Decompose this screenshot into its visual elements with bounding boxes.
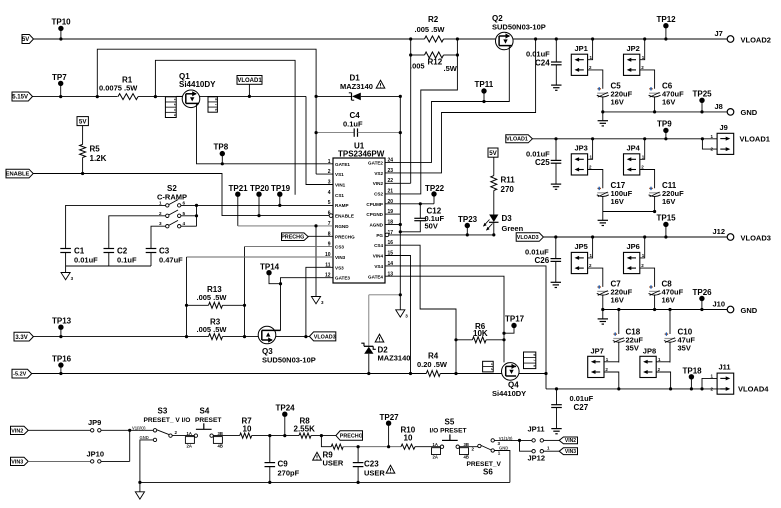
connector J9 VLOAD1 xyxy=(717,133,734,154)
junction VIN4 on rail xyxy=(409,372,412,375)
svg-text:5: 5 xyxy=(183,211,186,216)
svg-text:VLOAD4: VLOAD4 xyxy=(738,385,769,394)
net tag -5.2V input xyxy=(12,369,32,378)
jumper JP10 xyxy=(91,460,94,463)
junction JP8 pin2 xyxy=(669,387,672,390)
capacitor C12 0.1uF 50V xyxy=(419,204,421,219)
svg-text:2: 2 xyxy=(589,65,592,70)
svg-text:2: 2 xyxy=(159,211,162,216)
svg-text:TP12: TP12 xyxy=(657,15,677,24)
junction R13 left xyxy=(185,304,188,307)
svg-text:.5W: .5W xyxy=(444,64,458,73)
svg-text:CS2: CS2 xyxy=(374,191,383,196)
svg-text:3: 3 xyxy=(321,300,324,305)
svg-text:.005 .5W: .005 .5W xyxy=(415,25,446,34)
junction C9 bottom xyxy=(268,481,271,484)
wire R13 legs xyxy=(186,305,188,336)
svg-text:MAZ3140: MAZ3140 xyxy=(340,82,373,91)
svg-text:16V: 16V xyxy=(662,296,675,305)
wire JP3 pin2 to C17 xyxy=(588,170,603,189)
svg-text:.005 .5W: .005 .5W xyxy=(197,293,228,302)
transistor Q4 Si4410DY xyxy=(502,363,520,381)
resistor R9 USER xyxy=(331,444,343,449)
svg-text:3: 3 xyxy=(328,180,331,186)
capacitor C23 USER xyxy=(357,447,359,463)
svg-text:.005: .005 xyxy=(410,62,425,71)
svg-text:1: 1 xyxy=(328,159,331,165)
svg-text:JP4: JP4 xyxy=(627,144,641,153)
jumper JP1 xyxy=(571,54,587,75)
svg-text:S4: S4 xyxy=(200,407,210,416)
svg-text:SUD50N03-10P: SUD50N03-10P xyxy=(262,356,316,365)
wire R1 to Q1 xyxy=(138,96,182,98)
jumper JP3 xyxy=(571,154,587,175)
svg-text:6: 6 xyxy=(533,365,537,367)
svg-text:6: 6 xyxy=(214,109,218,111)
svg-text:1A: 1A xyxy=(433,442,438,447)
svg-text:VLOAD3: VLOAD3 xyxy=(314,334,336,340)
ground C26 xyxy=(551,281,561,283)
junction C11 bottom xyxy=(653,210,656,213)
junction AGND pin18 xyxy=(399,223,402,226)
junction VS3 on VLOAD3 xyxy=(304,335,307,338)
connector J12 VLOAD3 xyxy=(727,234,734,241)
svg-text:2: 2 xyxy=(589,263,592,268)
svg-text:VIN2: VIN2 xyxy=(373,181,384,186)
wire ENABLE net xyxy=(33,174,329,216)
svg-text:R2: R2 xyxy=(428,15,439,24)
jumper JP8 xyxy=(640,356,656,377)
wire JP9 to S3 xyxy=(101,429,153,431)
svg-text:TP11: TP11 xyxy=(475,80,494,89)
wire VIN2 from R2 left xyxy=(410,55,412,183)
wire R12 left leg xyxy=(410,39,412,55)
wire VIN1 xyxy=(306,96,333,184)
jumper JP9 xyxy=(91,429,94,432)
wire S3 common to S4 xyxy=(172,435,194,437)
svg-text:VS3: VS3 xyxy=(335,265,344,270)
connector J7 VLOAD2 xyxy=(727,36,734,43)
svg-text:ENABLE: ENABLE xyxy=(6,172,30,178)
transistor Q1 Si4410DY xyxy=(182,90,200,108)
svg-text:VIN2: VIN2 xyxy=(11,428,23,434)
wire VLOAD3 out xyxy=(543,236,727,238)
svg-text:0.1uF: 0.1uF xyxy=(117,256,137,265)
wire JP1 pin1 xyxy=(588,39,593,60)
svg-text:0.20 .5W: 0.20 .5W xyxy=(417,360,448,369)
svg-text:1: 1 xyxy=(590,55,593,60)
svg-text:GATE2: GATE2 xyxy=(368,160,383,165)
junction TP27 xyxy=(387,445,390,448)
svg-text:TP10: TP10 xyxy=(52,18,72,27)
svg-text:CPUMP: CPUMP xyxy=(366,202,383,207)
svg-text:C24: C24 xyxy=(535,59,550,68)
testpoint TP22 xyxy=(431,191,436,196)
capacitor C27 0.01uF xyxy=(556,389,558,405)
svg-text:USER: USER xyxy=(323,458,344,467)
net tag ENABLE input xyxy=(6,169,33,178)
junction R2 right xyxy=(456,37,459,40)
net tag PRECHG low xyxy=(336,431,363,441)
junction J11 branch xyxy=(700,387,703,390)
junction S2 common xyxy=(195,204,198,207)
testpoint TP12 xyxy=(663,23,668,28)
ground C5 xyxy=(598,120,608,122)
svg-text:TP21: TP21 xyxy=(229,184,249,193)
testpoint TP20 xyxy=(256,192,261,197)
testpoint TP8 xyxy=(220,151,225,156)
wire GND row 1 xyxy=(603,111,727,113)
junction TP16 xyxy=(59,372,62,375)
wire JP2 pin1 xyxy=(640,39,645,60)
svg-text:VLOAD1: VLOAD1 xyxy=(506,137,528,143)
wire S6 GND throw xyxy=(494,451,510,483)
wire VS1 sense loop xyxy=(97,49,316,96)
wire JP12 branch xyxy=(520,440,533,451)
wire S4 to R7 xyxy=(213,435,239,437)
testpoint TP26 xyxy=(699,296,704,301)
svg-text:10: 10 xyxy=(404,433,413,442)
wire S6 top throw to JP11 xyxy=(494,439,532,441)
svg-text:3: 3 xyxy=(405,313,408,318)
svg-text:VS2: VS2 xyxy=(374,171,383,176)
net tag VIN2 input xyxy=(11,426,29,434)
net tag VIN3 right xyxy=(559,448,577,455)
testpoint TP25 xyxy=(699,98,704,103)
svg-text:0.01uF: 0.01uF xyxy=(74,256,98,265)
capacitor C1 0.01uF xyxy=(60,248,71,250)
jumper JP7 xyxy=(588,356,604,377)
wire Q3 out xyxy=(276,336,310,338)
ground ramp caps xyxy=(61,273,70,280)
resistor R7 10 xyxy=(240,433,252,438)
Q4 right pad pins xyxy=(524,352,536,369)
ground C24 xyxy=(551,84,561,86)
svg-text:5V: 5V xyxy=(79,118,87,125)
svg-text:1.2K: 1.2K xyxy=(90,154,107,163)
testpoint TP15 xyxy=(663,222,668,227)
junction TP25 xyxy=(700,110,703,113)
ground C7 xyxy=(598,318,608,320)
wire JP11 to VIN2 tag xyxy=(544,439,560,441)
wire 5V rail R2 to Q2 xyxy=(457,38,495,40)
resistor R2 xyxy=(411,38,425,40)
wire VLOAD4 xyxy=(546,388,727,390)
svg-text:6: 6 xyxy=(183,200,186,205)
svg-text:TP19: TP19 xyxy=(271,184,291,193)
svg-text:PRECHG: PRECHG xyxy=(340,433,363,439)
wire VS2 sense xyxy=(385,39,536,173)
junction TP18 xyxy=(690,387,693,390)
wire VIN2 to JP9 xyxy=(28,429,91,431)
testpoint TP23 xyxy=(465,223,470,228)
svg-text:21: 21 xyxy=(388,188,394,194)
junction JP6 pin1 xyxy=(643,235,646,238)
junction JP1 pin1 xyxy=(591,37,594,40)
wire C2 to S2 pole 2 xyxy=(109,216,166,249)
svg-text:JP12: JP12 xyxy=(528,453,546,462)
svg-text:4B: 4B xyxy=(218,444,223,449)
junction J9 branch xyxy=(701,137,704,140)
op-amp U1 TPS2346PW hot-swap controller xyxy=(333,158,385,283)
junction R6 right xyxy=(502,338,505,341)
diode D2 MAZ3140 xyxy=(368,295,370,347)
svg-text:JP9: JP9 xyxy=(88,418,101,427)
svg-text:TP14: TP14 xyxy=(260,263,280,272)
junction JP3 pin1 xyxy=(591,137,594,140)
transistor Q2 SUD50N03-10P xyxy=(496,32,514,50)
testpoint TP27 xyxy=(386,421,391,426)
svg-text:35V: 35V xyxy=(678,344,691,353)
junction JP7 pin2 xyxy=(617,387,620,390)
testpoint TP11 xyxy=(481,88,486,93)
connector J11 VLOAD4 xyxy=(717,373,734,394)
svg-text:3: 3 xyxy=(173,109,177,111)
junction D1 left xyxy=(315,95,318,98)
junction R6 left xyxy=(454,338,457,341)
svg-text:VIN2: VIN2 xyxy=(565,438,576,444)
testpoint TP10 xyxy=(58,26,63,31)
wire JP8 pin1 xyxy=(656,361,670,363)
junction CS4 on rail xyxy=(454,372,457,375)
svg-text:RGND: RGND xyxy=(335,224,349,229)
resistor R6 10K xyxy=(456,339,472,341)
svg-text:J10: J10 xyxy=(713,300,726,309)
svg-text:5.15V: 5.15V xyxy=(12,95,28,101)
svg-text:VLOAD2: VLOAD2 xyxy=(741,36,771,45)
wire GATE3 xyxy=(281,278,334,331)
wire R7 to R8 xyxy=(252,435,299,437)
junction D2 top on AGND xyxy=(399,293,402,296)
svg-text:CPGND: CPGND xyxy=(366,212,383,217)
junction C27 xyxy=(555,387,558,390)
junction C12 bottom on AGND xyxy=(399,230,402,233)
svg-text:VLOAD1: VLOAD1 xyxy=(740,135,770,144)
connector J10 GND xyxy=(727,306,734,313)
capacitor C2 0.1uF xyxy=(104,248,115,250)
svg-text:0.47uF: 0.47uF xyxy=(159,256,183,265)
svg-text:JP10: JP10 xyxy=(87,450,105,459)
net tag VLOAD1 output xyxy=(506,135,533,143)
svg-text:VIN1: VIN1 xyxy=(335,183,346,188)
svg-text:VLOAD1: VLOAD1 xyxy=(237,78,262,84)
capacitor C6 470uF 16V xyxy=(649,92,660,94)
junction TP8 on GATE1 wire xyxy=(221,162,224,165)
svg-text:7: 7 xyxy=(214,104,218,106)
capacitor C9 270pF xyxy=(269,436,271,463)
junction C10 top xyxy=(668,308,671,311)
wire R12 right leg xyxy=(456,39,458,55)
junction VS4 at Q4 out xyxy=(544,372,547,375)
junction C8 bottom xyxy=(653,308,656,311)
svg-text:2: 2 xyxy=(328,169,331,175)
svg-text:TP13: TP13 xyxy=(52,317,72,326)
wire C1 to S2 pole 1 xyxy=(66,205,166,248)
resistor R13 xyxy=(187,304,209,306)
svg-text:S6: S6 xyxy=(483,468,493,477)
svg-text:24: 24 xyxy=(388,157,394,163)
svg-text:0.1uF: 0.1uF xyxy=(343,120,363,129)
junction C18 top xyxy=(617,308,620,311)
svg-text:C23: C23 xyxy=(364,460,379,469)
junction sense loop on 5.15V xyxy=(96,95,99,98)
wire CPGND pin19 xyxy=(385,213,400,215)
junction CS1 tap xyxy=(154,95,157,98)
wire CS2 from R2 right xyxy=(385,55,457,194)
ground C27 xyxy=(551,428,561,430)
svg-text:JP1: JP1 xyxy=(575,44,588,53)
svg-text:J11: J11 xyxy=(719,363,731,372)
svg-text:TP17: TP17 xyxy=(505,315,525,324)
svg-text:CS3: CS3 xyxy=(335,245,344,250)
wire RGND to ground xyxy=(315,226,317,297)
svg-text:2: 2 xyxy=(589,165,592,170)
svg-text:J12: J12 xyxy=(713,227,726,236)
capacitor C26 0.01uF xyxy=(555,237,557,259)
resistor R10 10 xyxy=(401,444,415,449)
wire AGND pin18 xyxy=(385,224,400,226)
wire bottom return loop xyxy=(140,481,510,483)
junction R5 on ENABLE xyxy=(81,172,84,175)
junction C24 xyxy=(555,37,558,40)
svg-text:PRESET: PRESET xyxy=(195,417,221,424)
wire S2 common bus xyxy=(181,204,333,206)
svg-text:16V: 16V xyxy=(611,98,624,107)
svg-text:J7: J7 xyxy=(715,29,723,38)
svg-text:JP7: JP7 xyxy=(591,347,604,356)
wire JP6 pin2 to C8 xyxy=(640,268,655,287)
wire S3 GND throw to loop xyxy=(140,440,153,483)
svg-text:2A: 2A xyxy=(187,444,192,449)
resistor R4 xyxy=(426,371,440,377)
junction JP2 pin1 xyxy=(643,37,646,40)
svg-text:CS1: CS1 xyxy=(335,193,344,198)
wire JP2 pin2 to C6 xyxy=(640,70,655,89)
svg-text:2: 2 xyxy=(175,430,178,435)
ground C25 xyxy=(551,183,561,185)
svg-text:TP23: TP23 xyxy=(458,215,478,224)
svg-text:23: 23 xyxy=(388,168,394,174)
wire 3.3V rail xyxy=(33,336,208,338)
svg-text:Green: Green xyxy=(502,224,524,233)
junction TP10 on 5V rail xyxy=(59,37,62,40)
svg-text:5V: 5V xyxy=(22,37,29,43)
svg-text:10: 10 xyxy=(243,424,252,433)
svg-text:PRESET_ V I/O: PRESET_ V I/O xyxy=(144,417,191,424)
jumper JP4 xyxy=(624,154,640,175)
wire R10 to S5 xyxy=(415,446,440,448)
junction TP19 on RAMP xyxy=(278,204,281,207)
svg-text:270pF: 270pF xyxy=(278,469,300,478)
junction JP5 pin1 xyxy=(591,235,594,238)
wire 5.15V feed xyxy=(33,96,118,98)
svg-text:PRECHG: PRECHG xyxy=(335,234,355,239)
svg-text:3: 3 xyxy=(159,221,162,226)
svg-text:TP27: TP27 xyxy=(380,413,400,422)
svg-text:TP8: TP8 xyxy=(214,143,229,152)
svg-text:GND: GND xyxy=(741,108,758,117)
svg-text:1: 1 xyxy=(711,374,714,379)
svg-text:270: 270 xyxy=(501,185,515,194)
warning triangle at C23 xyxy=(386,465,395,473)
transistor Q3 SUD50N03-10P xyxy=(258,326,276,344)
wire VS1 vertical xyxy=(315,96,317,174)
svg-text:TP24: TP24 xyxy=(276,404,296,413)
svg-text:S5: S5 xyxy=(445,418,455,427)
wire Q1 drain out xyxy=(176,95,182,97)
svg-text:TP26: TP26 xyxy=(693,288,713,297)
svg-text:C1: C1 xyxy=(74,247,85,256)
svg-text:TP20: TP20 xyxy=(250,184,270,193)
junction TP20 on ENABLE xyxy=(257,214,260,217)
junction JP9/JP10 tie xyxy=(128,429,131,432)
svg-text:7: 7 xyxy=(533,359,537,361)
wire VIN4 xyxy=(385,256,411,374)
svg-text:RAMP: RAMP xyxy=(335,203,349,208)
svg-text:1: 1 xyxy=(606,357,609,362)
junction C5 bottom xyxy=(601,110,604,113)
svg-text:16V: 16V xyxy=(662,197,675,206)
resistor R3 xyxy=(209,334,223,340)
wire JP5 pin2 to C7 xyxy=(588,268,603,287)
wire Q4 out xyxy=(519,373,546,375)
svg-text:10K: 10K xyxy=(473,329,488,338)
junction R9 branch xyxy=(320,434,323,437)
svg-text:JP6: JP6 xyxy=(627,242,640,251)
svg-text:3: 3 xyxy=(71,276,74,281)
svg-text:GND: GND xyxy=(741,306,758,315)
net tag VLOAD3 output xyxy=(516,233,543,242)
svg-text:Si4410DY: Si4410DY xyxy=(492,389,526,398)
svg-text:GATE4: GATE4 xyxy=(368,274,383,279)
svg-text:VIN4: VIN4 xyxy=(373,254,384,259)
junction TP11 on gate wire xyxy=(482,100,485,103)
wire JP3 pin1 xyxy=(588,139,593,160)
wire J9 pin2 branch xyxy=(702,139,717,149)
svg-text:16V: 16V xyxy=(611,197,624,206)
svg-text:1: 1 xyxy=(590,154,593,159)
wire R9 branch xyxy=(321,436,331,447)
net tag 5.15V input xyxy=(12,92,33,101)
svg-text:TPS2346PW: TPS2346PW xyxy=(338,149,385,158)
svg-text:50V: 50V xyxy=(425,222,438,231)
svg-text:TP16: TP16 xyxy=(52,355,72,364)
svg-text:S3: S3 xyxy=(158,407,168,416)
junction TP17 on gate xyxy=(502,332,505,335)
net tag VLOAD3 at Q3 xyxy=(309,332,335,341)
wire JP1 pin2 to C5 xyxy=(588,70,603,89)
junction VLOAD1 stub xyxy=(248,95,251,98)
wire AGND vertical xyxy=(399,96,401,309)
testpoint TP7 xyxy=(58,81,63,86)
resistor R5 1.2K xyxy=(80,144,86,157)
junction C4 left xyxy=(315,131,318,134)
junction RGND ground drop xyxy=(314,224,317,227)
svg-text:C25: C25 xyxy=(535,158,550,167)
svg-text:2A: 2A xyxy=(433,455,438,460)
Q4 left pad pins xyxy=(483,361,494,372)
svg-text:2: 2 xyxy=(490,368,494,370)
capacitor C25 0.01uF xyxy=(555,139,557,161)
svg-text:0.0075 .5W: 0.0075 .5W xyxy=(99,84,138,93)
net label VLOAD1 at Q1 xyxy=(237,76,262,85)
junction JP4 pin1 xyxy=(643,137,646,140)
resistor R11 270 xyxy=(491,176,497,191)
svg-text:JP5: JP5 xyxy=(575,242,588,251)
jumper JP2 xyxy=(624,54,640,75)
switch S6 PRESET_V xyxy=(478,444,481,447)
svg-text:D3: D3 xyxy=(502,214,513,223)
